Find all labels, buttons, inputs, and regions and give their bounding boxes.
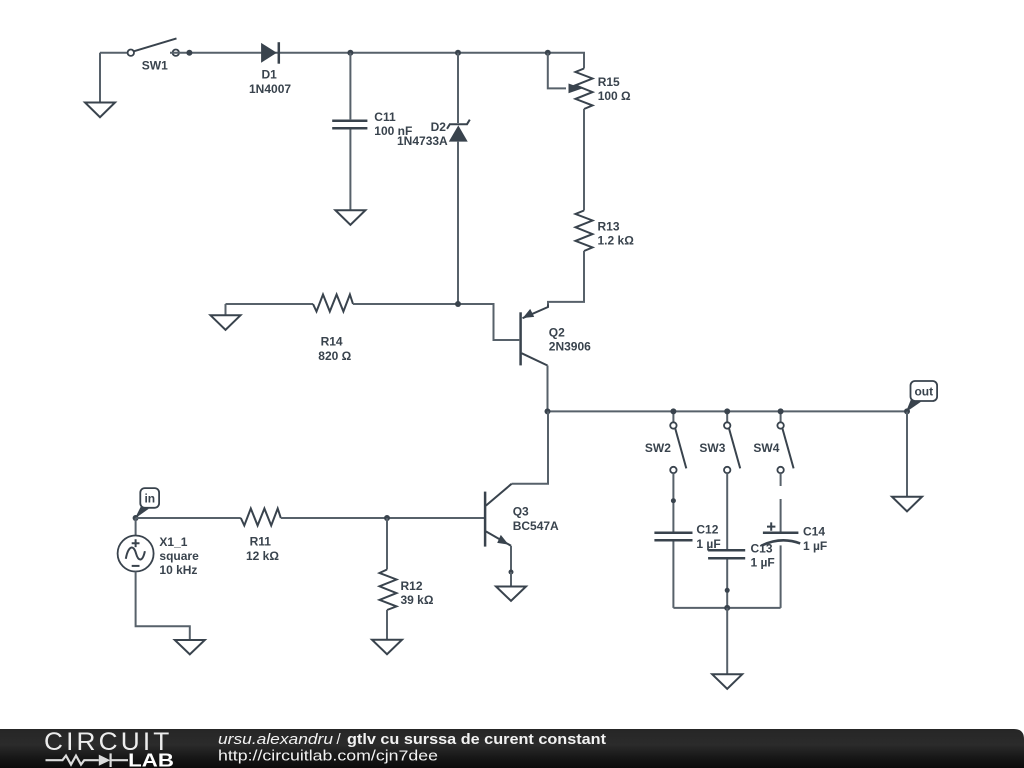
- switch SW4: [753, 411, 793, 473]
- node D2 top: [455, 50, 461, 56]
- wire C14 top: [780, 499, 782, 532]
- wire: [353, 304, 519, 340]
- wire: [136, 517, 241, 519]
- capacitor C14 1uF polarized: [761, 522, 827, 552]
- wire: [672, 542, 674, 608]
- node R14 base: [455, 301, 461, 307]
- svg-text:100 Ω: 100 Ω: [598, 89, 631, 103]
- zener diode D2 1N4733A: [397, 120, 470, 149]
- svg-text:12 kΩ: 12 kΩ: [246, 549, 279, 563]
- resistor R11 12k: [241, 509, 281, 563]
- wire: [547, 366, 549, 412]
- svg-text:1N4733A: 1N4733A: [397, 134, 448, 148]
- wire: [386, 610, 388, 640]
- svg-text:39 kΩ: 39 kΩ: [401, 593, 434, 607]
- svg-text:R15: R15: [598, 75, 620, 89]
- svg-text:in: in: [144, 491, 155, 505]
- node R12 top: [384, 515, 390, 521]
- svg-text:1N4007: 1N4007: [249, 82, 291, 96]
- ground: [335, 210, 365, 225]
- potentiometer R15 100 ohm: [569, 69, 632, 110]
- node SW4 top: [778, 408, 784, 414]
- svg-text:1 µF: 1 µF: [751, 556, 775, 570]
- source X1_1 square 10kHz: [118, 535, 199, 577]
- wire: [281, 517, 484, 519]
- svg-text:out: out: [914, 385, 933, 399]
- wire: [457, 53, 459, 123]
- footer title: [218, 731, 606, 748]
- wire out rail: [548, 410, 908, 412]
- capacitor C13 1uF: [708, 541, 775, 569]
- resistor R12 39k: [380, 570, 434, 611]
- svg-text:LAB: LAB: [128, 749, 174, 768]
- wire wiper: [548, 53, 566, 89]
- svg-text:D2: D2: [431, 120, 447, 134]
- wire bottom rail: [673, 607, 780, 609]
- svg-text:10 kHz: 10 kHz: [159, 563, 197, 577]
- svg-text:D1: D1: [262, 68, 278, 82]
- ground: [85, 53, 115, 118]
- ground: [175, 640, 205, 654]
- svg-text:SW1: SW1: [142, 59, 168, 73]
- svg-text:2N3906: 2N3906: [549, 340, 591, 354]
- wire stub SW4: [780, 473, 782, 486]
- node SW2 top: [670, 408, 676, 414]
- svg-text:C11: C11: [374, 110, 396, 124]
- wire: [226, 303, 314, 305]
- capacitor C11: [332, 110, 412, 138]
- node Q2 collector: [545, 408, 551, 414]
- switch SW2: [645, 411, 686, 473]
- svg-text:Q2: Q2: [549, 325, 565, 339]
- svg-text:1 µF: 1 µF: [696, 537, 720, 551]
- ground: [892, 497, 922, 512]
- ground: [712, 674, 742, 689]
- svg-text:X1_1: X1_1: [159, 535, 187, 549]
- wire: [726, 559, 728, 608]
- wire: [386, 518, 388, 570]
- svg-text:R11: R11: [250, 535, 272, 549]
- wire: [457, 142, 459, 304]
- ground: [496, 587, 526, 601]
- diode D1 1N4007: [249, 42, 291, 96]
- wire Q3 collector: [512, 411, 548, 483]
- wire: [510, 546, 512, 572]
- flag in: [135, 488, 159, 518]
- wire: [780, 545, 782, 608]
- node C13 bottom: [725, 588, 730, 593]
- transistor Q2 2N3906: [521, 305, 592, 366]
- transistor Q3 BC547A: [485, 484, 559, 547]
- svg-text:SW3: SW3: [699, 441, 725, 455]
- logo symbol: [46, 753, 129, 767]
- svg-text:BC547A: BC547A: [513, 519, 559, 533]
- node after SW1: [186, 50, 192, 56]
- svg-text:1 µF: 1 µF: [803, 539, 827, 553]
- svg-text:820 Ω: 820 Ω: [318, 349, 351, 363]
- ground: [211, 304, 241, 330]
- node SW2 bottom: [671, 498, 676, 503]
- switch SW3: [699, 411, 740, 473]
- node in: [133, 515, 139, 521]
- wire: [726, 608, 728, 674]
- node Q3 emitter: [509, 570, 514, 575]
- node bottom rail: [724, 605, 730, 611]
- svg-text:Q3: Q3: [513, 505, 529, 519]
- svg-text:1.2 kΩ: 1.2 kΩ: [598, 234, 635, 248]
- node R15 wiper top: [545, 50, 551, 56]
- wire: [726, 473, 728, 549]
- wire: [906, 411, 908, 496]
- wire: [510, 572, 512, 587]
- node C11 top: [347, 50, 353, 56]
- svg-text:R12: R12: [401, 579, 423, 593]
- wire: [548, 251, 584, 306]
- wire: [100, 52, 128, 54]
- svg-text:R13: R13: [598, 219, 620, 233]
- node SW3 top: [724, 408, 730, 414]
- svg-text:square: square: [159, 549, 199, 563]
- wire: [583, 109, 585, 211]
- resistor R13 1.2k: [576, 211, 635, 252]
- svg-text:R14: R14: [321, 335, 343, 349]
- wire: [349, 53, 351, 120]
- wire: [136, 572, 190, 641]
- footer bar: [0, 729, 1024, 768]
- wire: [135, 518, 137, 536]
- capacitor C12 1uF: [654, 523, 720, 551]
- svg-text:http://circuitlab.com/cjn7dee: http://circuitlab.com/cjn7dee: [218, 747, 438, 764]
- svg-text:SW4: SW4: [753, 441, 779, 455]
- node out: [904, 408, 910, 414]
- svg-text:C14: C14: [803, 525, 825, 539]
- svg-text:gtlv cu surssa de curent const: gtlv cu surssa de curent constant: [347, 731, 606, 748]
- flag out: [906, 381, 937, 412]
- switch SW1: [128, 38, 179, 72]
- svg-text:ursu.alexandru: ursu.alexandru: [218, 731, 334, 748]
- wire: [672, 473, 674, 531]
- svg-text:C12: C12: [696, 523, 718, 537]
- wire top rail: [170, 53, 584, 69]
- ground: [372, 640, 402, 655]
- wire: [349, 130, 351, 211]
- resistor R14 820 ohm: [313, 295, 353, 363]
- svg-text:SW2: SW2: [645, 441, 671, 455]
